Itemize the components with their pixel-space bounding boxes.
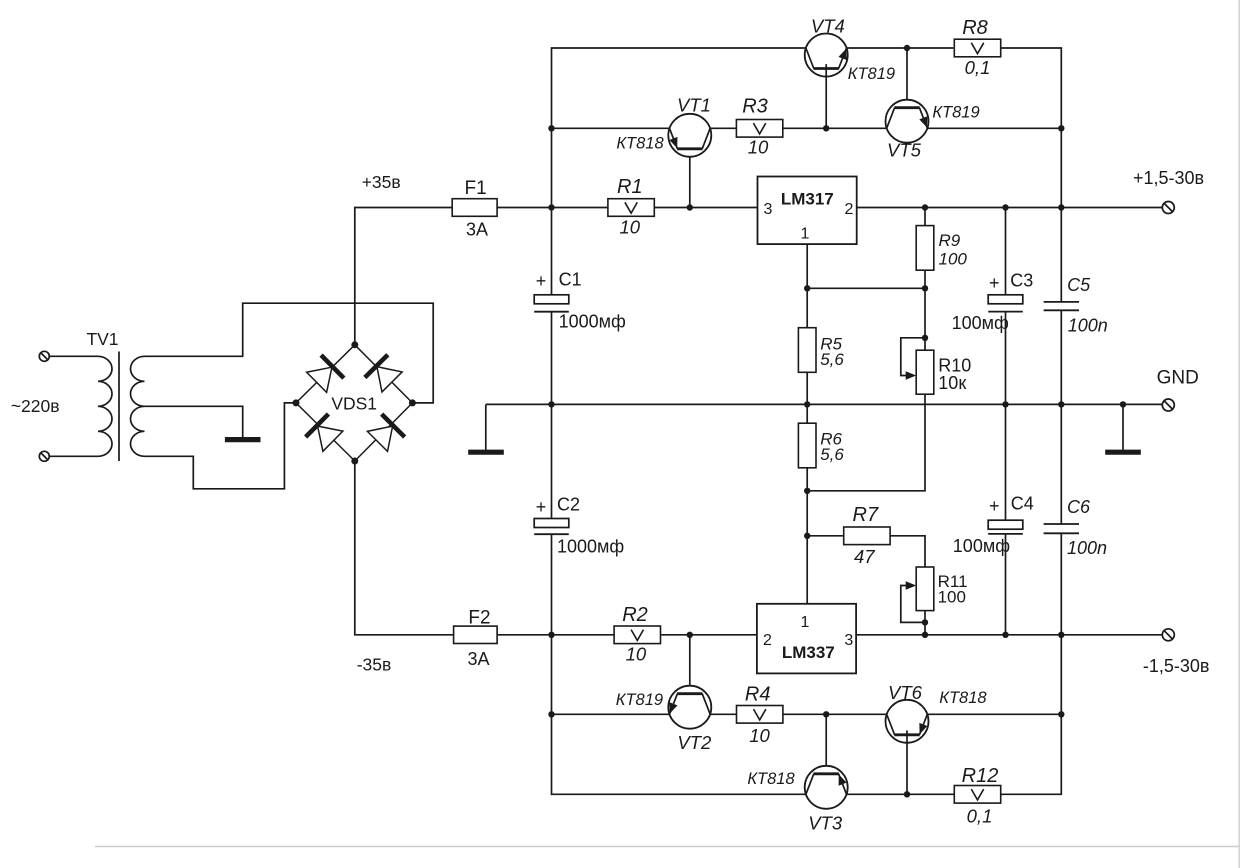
wire R5 top lead	[806, 288, 808, 327]
svg-text:2: 2	[763, 632, 772, 649]
wire R3 to VT5 base	[783, 127, 887, 129]
wire C3 bottom lead	[1005, 312, 1007, 405]
transistor VT6	[886, 700, 929, 743]
junction R9 top / output line	[922, 204, 928, 210]
svg-text:+1,5-30в: +1,5-30в	[1133, 168, 1204, 188]
wire C2 bottom lead	[551, 534, 553, 635]
potentiometer R10	[916, 350, 934, 394]
wire right rail down to output line	[1060, 128, 1062, 207]
terminal input bottom (~220v)	[39, 451, 49, 461]
resistor R5	[798, 328, 816, 373]
svg-text:1: 1	[801, 226, 810, 243]
svg-text:100: 100	[938, 587, 966, 606]
svg-text:3: 3	[764, 201, 773, 218]
junction VT2 emitter rail / left rail	[548, 711, 554, 717]
wire left rail C2 to VT2 line	[551, 635, 553, 715]
transistor VT2	[668, 686, 711, 729]
svg-text:КТ818: КТ818	[747, 770, 795, 788]
svg-text:5,6: 5,6	[820, 445, 844, 464]
wire VT3 emitter to R12	[847, 793, 955, 795]
svg-text:+: +	[536, 497, 547, 517]
wire LM317 pin2 output line	[857, 207, 1163, 209]
junction R11 wiper / bottom lead	[922, 619, 928, 625]
capacitor C4	[988, 520, 1023, 529]
wire VT6 base lead	[906, 730, 908, 794]
wire C4 bottom lead	[1005, 534, 1007, 635]
node bridge top (+)	[351, 341, 358, 348]
wire secondary bottom to bridge left node	[145, 403, 297, 489]
junction C3 / output line	[1002, 204, 1008, 210]
junction C5 / output line	[1058, 204, 1064, 210]
junction C3-C4 / GND rail	[1002, 401, 1008, 407]
svg-text:R3: R3	[742, 96, 768, 118]
wire R9 bottom lead	[924, 270, 926, 288]
svg-text:C6: C6	[1067, 497, 1091, 517]
wire R6 node to LM337 pin1	[806, 491, 808, 604]
junction VT1 emitter rail / left rail	[548, 125, 554, 131]
wire R6 bottom lead	[806, 468, 808, 491]
diode VDS1 top-right (right node to +)	[365, 355, 404, 394]
transistor VT1	[668, 114, 711, 157]
junction R10 top / wiper	[922, 335, 928, 341]
svg-text:1: 1	[801, 614, 810, 631]
node bridge right (AC)	[409, 399, 416, 406]
ground main	[468, 450, 504, 455]
wire F1 to C1 junction	[497, 207, 608, 209]
diode VDS1 top-left (left node to +)	[305, 355, 344, 394]
wire VT4 base lead	[825, 64, 827, 128]
resistor R8	[954, 39, 1000, 57]
wire R7 left lead	[807, 535, 844, 537]
junction C6 / negative output line	[1058, 632, 1064, 638]
terminal GND	[1162, 399, 1174, 411]
wire secondary top to bridge right node	[145, 303, 434, 403]
svg-text:100n: 100n	[1067, 538, 1107, 558]
fuse F1	[452, 207, 497, 209]
transformer TV1 secondary winding	[131, 356, 145, 456]
wire R11 bottom lead	[924, 611, 926, 635]
junction VT4 base / R3 line	[823, 125, 829, 131]
svg-text:100мф: 100мф	[953, 536, 1010, 556]
scan artifact bottom line	[95, 846, 1240, 848]
junction R7 left / pin1 rail	[804, 533, 810, 539]
svg-text:VT6: VT6	[888, 682, 923, 703]
resistor R9	[916, 226, 934, 271]
svg-text:TV1: TV1	[86, 329, 118, 349]
svg-text:-1,5-30в: -1,5-30в	[1143, 656, 1210, 676]
svg-text:КТ818: КТ818	[616, 134, 664, 152]
wire primary bottom lead	[49, 455, 98, 457]
svg-text:КТ819: КТ819	[616, 691, 663, 709]
wire secondary centre tap to ground	[145, 406, 243, 437]
wire VT1 collector to R3	[710, 127, 736, 129]
svg-text:-35в: -35в	[357, 654, 392, 674]
svg-text:100мф: 100мф	[952, 313, 1009, 333]
wire primary top lead	[49, 355, 98, 357]
svg-text:C2: C2	[557, 495, 580, 515]
wire VT1 emitter line	[552, 127, 670, 129]
wire C5 top lead	[1060, 208, 1062, 302]
svg-text:+: +	[989, 273, 1000, 293]
wire C5 bottom lead	[1060, 310, 1062, 404]
wire C1 bottom lead	[551, 312, 553, 405]
capacitor C3	[988, 295, 1023, 304]
transistor VT4	[805, 34, 848, 77]
wire VT5 collector lead	[906, 48, 908, 112]
wire R2 to LM337 pin2	[661, 634, 757, 636]
svg-text:R4: R4	[745, 684, 771, 706]
svg-text:100: 100	[939, 250, 968, 269]
wire C2 top lead	[551, 404, 553, 518]
wire VT3 base lead	[825, 714, 827, 778]
wire C4 top lead	[1005, 404, 1007, 520]
junction VT5 collector / top rail	[904, 45, 910, 51]
junction C1 / +35v rail	[548, 204, 554, 210]
svg-text:100n: 100n	[1068, 316, 1108, 336]
svg-text:LM317: LM317	[781, 190, 834, 209]
wire +35v net (bridge top to F1)	[355, 208, 452, 345]
junction R6 bottom / R10 link	[804, 488, 810, 494]
junction C4 / negative output line	[1002, 632, 1008, 638]
svg-text:VDS1: VDS1	[331, 394, 377, 414]
svg-text:1000мф: 1000мф	[559, 311, 626, 331]
svg-text:3A: 3A	[467, 649, 489, 669]
transistor VT5	[886, 100, 929, 143]
wire left rail to top rail	[552, 48, 806, 208]
wiper R10	[901, 338, 925, 376]
wire VT4 emitter to R8	[847, 47, 954, 49]
wire F2 to R2	[497, 634, 613, 636]
svg-text:КТ818: КТ818	[939, 689, 987, 707]
svg-text:+35в: +35в	[362, 172, 401, 192]
svg-text:1000мф: 1000мф	[557, 536, 624, 556]
svg-text:GND: GND	[1157, 367, 1199, 388]
svg-text:F1: F1	[465, 178, 487, 199]
wire R9 node to R10 top	[924, 288, 926, 350]
junction C1-C2 / GND rail	[548, 401, 554, 407]
regulator U1 LM317	[758, 177, 857, 245]
wire pin1 to R9 bottom	[807, 287, 925, 289]
wire VT5 emitter to right rail	[927, 127, 1061, 129]
wire VT2 emitter line	[552, 713, 670, 715]
svg-text:C4: C4	[1011, 493, 1034, 513]
wire right ground drop	[1122, 404, 1124, 449]
svg-text:VT3: VT3	[808, 812, 843, 833]
svg-text:0,1: 0,1	[967, 806, 993, 827]
capacitor C6	[1044, 523, 1079, 525]
svg-text:VT2: VT2	[677, 732, 712, 753]
svg-text:C3: C3	[1010, 271, 1033, 291]
wire left rail to bottom rail	[552, 714, 806, 794]
wire C6 top lead	[1060, 404, 1062, 524]
regulator U2 LM337	[757, 604, 856, 674]
wire GND rail	[486, 403, 1163, 405]
wire R4 to VT6	[783, 713, 887, 715]
svg-text:C5: C5	[1067, 275, 1091, 295]
junction R5-R6 / GND rail	[804, 401, 810, 407]
svg-text:R7: R7	[853, 504, 879, 526]
svg-text:R9: R9	[939, 231, 961, 250]
resistor R1	[608, 199, 654, 217]
transformer TV1 core	[118, 352, 120, 462]
transistor VT3	[805, 766, 848, 809]
capacitor C5	[1044, 301, 1079, 303]
junction R11 / negative line	[922, 632, 928, 638]
bridge VDS1 frame	[296, 345, 412, 461]
svg-text:R12: R12	[962, 765, 999, 787]
junction VT6 base / bottom rail	[904, 791, 910, 797]
svg-text:VT1: VT1	[677, 94, 711, 115]
svg-text:10: 10	[626, 644, 647, 665]
terminal input top (~220v)	[39, 351, 49, 361]
scan artifact right edge	[1238, 0, 1240, 868]
transformer TV1 primary winding	[98, 356, 112, 456]
resistor R6	[798, 423, 816, 468]
potentiometer R11	[916, 567, 934, 611]
diode VDS1 bottom-right (- to right node)	[366, 414, 405, 453]
svg-text:5,6: 5,6	[820, 350, 844, 369]
wire R6 top lead	[806, 404, 808, 423]
svg-text:~220в: ~220в	[11, 396, 60, 416]
junction R9 bottom	[922, 285, 928, 291]
svg-text:10: 10	[749, 725, 770, 746]
resistor R2	[614, 626, 660, 644]
wire VT6 emitter to right rail	[927, 713, 1061, 715]
svg-text:2: 2	[844, 201, 853, 218]
svg-text:47: 47	[854, 546, 875, 567]
terminal +1,5-30в	[1162, 202, 1174, 214]
node bridge bottom (-)	[351, 458, 358, 465]
junction C5-C6 / GND rail	[1058, 401, 1064, 407]
wire -35v net (bridge bottom to F2)	[355, 461, 454, 635]
wire LM317 pin1 lead	[806, 244, 808, 288]
svg-text:R8: R8	[962, 17, 988, 39]
junction VT5 emitter / right rail	[1058, 125, 1064, 131]
svg-text:0,1: 0,1	[965, 57, 991, 78]
resistor R3	[736, 120, 782, 138]
svg-text:10: 10	[620, 217, 641, 238]
wire C6 bottom lead	[1060, 533, 1062, 635]
wire LM337 pin3 output line	[856, 634, 1162, 636]
wire VT2 collector to R4	[710, 713, 736, 715]
svg-text:+: +	[536, 271, 547, 291]
svg-text:+: +	[989, 496, 1000, 516]
ground centre-tap	[225, 437, 261, 442]
resistor R12	[954, 786, 1000, 804]
svg-text:R2: R2	[622, 604, 648, 626]
resistor R7	[844, 527, 890, 545]
svg-text:C1: C1	[559, 269, 582, 289]
svg-text:КТ819: КТ819	[932, 104, 979, 122]
svg-text:VT5: VT5	[887, 140, 922, 161]
svg-text:F2: F2	[468, 607, 490, 628]
wire R10 bottom to R6 bottom link	[807, 394, 925, 491]
junction R2 out / VT2 base	[687, 632, 693, 638]
fuse F2	[454, 634, 498, 636]
svg-text:R1: R1	[617, 176, 643, 198]
wire R5 bottom lead	[806, 372, 808, 404]
junction VT6 emitter / right rail	[1058, 711, 1064, 717]
wire main ground drop	[485, 404, 487, 449]
wiper R11	[901, 586, 925, 623]
wire R8 to right rail	[1001, 48, 1062, 128]
ground right	[1105, 450, 1141, 455]
diode VDS1 bottom-left (- to left node)	[306, 414, 345, 453]
junction pin1 / R5	[804, 285, 810, 291]
wire C1 top lead	[551, 208, 553, 295]
wire R7 to R11 top	[890, 536, 925, 567]
svg-text:3: 3	[844, 632, 853, 649]
wire R1 to LM317 pin3	[654, 207, 757, 209]
svg-text:10: 10	[748, 137, 769, 158]
terminal -1,5-30в	[1162, 629, 1174, 641]
wire right rail neg to VT6 line	[1060, 635, 1062, 715]
capacitor C1	[534, 295, 569, 304]
junction R1 out / VT1 base	[687, 204, 693, 210]
wire VT2 base lead	[689, 635, 691, 698]
svg-text:10к: 10к	[938, 373, 966, 393]
capacitor C2	[534, 519, 569, 528]
junction C2 / -35v rail	[548, 632, 554, 638]
wire VT1 base lead	[689, 144, 691, 207]
wire R12 to right rail	[1001, 714, 1062, 794]
svg-text:КТ819: КТ819	[848, 65, 895, 83]
junction VT3 base / R4 line	[823, 711, 829, 717]
svg-text:3A: 3A	[466, 219, 488, 239]
svg-text:LM337: LM337	[782, 643, 835, 662]
wire C3 top lead	[1005, 208, 1007, 295]
resistor R4	[737, 706, 783, 724]
wire R9 top lead	[924, 208, 926, 226]
node bridge left (AC)	[293, 399, 300, 406]
junction right ground / GND rail	[1120, 401, 1126, 407]
svg-text:VT4: VT4	[811, 15, 845, 36]
